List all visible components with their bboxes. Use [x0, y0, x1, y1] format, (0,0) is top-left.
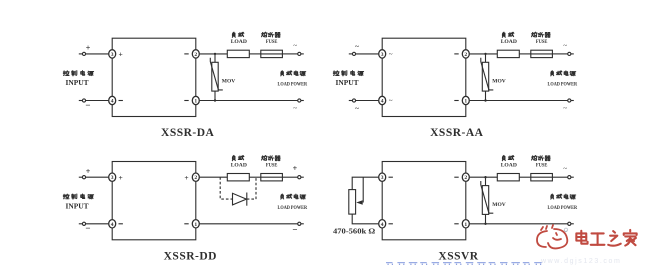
- svg-text:4: 4: [111, 99, 114, 105]
- svg-text:~: ~: [293, 42, 297, 50]
- input lead wire (top): [356, 53, 379, 55]
- cut-off blue caption fragments at bottom edge: [386, 262, 542, 265]
- watermark logo icon (sketched circles): [537, 225, 568, 248]
- junction dot MOV top: [484, 176, 486, 178]
- svg-text:LOAD: LOAD: [501, 163, 517, 169]
- svg-text:1: 1: [194, 222, 197, 228]
- fuse F1: [531, 174, 553, 181]
- svg-text:MOV: MOV: [492, 79, 505, 85]
- label 控制电源: [63, 71, 69, 76]
- input lead wire (top): [86, 176, 109, 178]
- input terminal circle (top): [349, 52, 356, 55]
- svg-text:XSSR-DD: XSSR-DD: [164, 251, 217, 263]
- input lead wire (top): [86, 53, 109, 55]
- terminal pin 4: [379, 96, 386, 104]
- label 负载: [502, 32, 505, 37]
- terminal pin 4: [379, 220, 386, 228]
- svg-text:XSSR-AA: XSSR-AA: [430, 127, 484, 139]
- SSR module box XSSR-AA: [382, 38, 466, 116]
- svg-text:MOV: MOV: [492, 202, 505, 208]
- pin polarity mark minus: [184, 100, 188, 102]
- svg-text:~: ~: [389, 50, 393, 58]
- svg-text:2: 2: [194, 52, 197, 58]
- svg-text:+: +: [86, 167, 91, 176]
- label 熔断器: [532, 155, 538, 160]
- svg-text:−: −: [292, 225, 297, 235]
- svg-text:+: +: [86, 44, 91, 53]
- terminal pin 2: [462, 173, 469, 181]
- trademark ring: [564, 228, 567, 231]
- fuse F1: [531, 50, 553, 57]
- svg-text:3: 3: [111, 52, 114, 58]
- label 负载: [232, 155, 235, 160]
- SSR module box XSSR-VR: [382, 162, 466, 240]
- wire terminal2 to load: [200, 53, 228, 55]
- terminal pin 2: [192, 173, 199, 181]
- terminal pin 1: [192, 96, 199, 104]
- terminal pin 3: [379, 173, 386, 181]
- freewheel diode D1: [233, 193, 247, 206]
- svg-text:LOAD POWER: LOAD POWER: [548, 205, 578, 211]
- wire MOV to bottom return: [485, 214, 487, 223]
- pin polarity mark minus: [454, 176, 458, 178]
- input terminal circle (bottom): [79, 99, 86, 102]
- junction dot MOV bottom: [214, 99, 216, 101]
- input terminal circle (bottom): [79, 222, 86, 225]
- right terminal circle (bottom): [298, 99, 304, 102]
- wire fuse to right terminal: [282, 53, 297, 55]
- svg-text:LOAD: LOAD: [231, 163, 247, 169]
- bottom return wire terminal1 to right terminal: [470, 223, 568, 225]
- svg-text:470-560k Ω: 470-560k Ω: [333, 226, 375, 235]
- label 熔断器: [262, 155, 268, 160]
- svg-text:+: +: [184, 173, 188, 182]
- input lead wire (bottom): [86, 100, 109, 102]
- label 负载电源: [281, 194, 284, 199]
- wire load to fuse: [519, 176, 531, 178]
- varistor MOV: [481, 58, 494, 91]
- wire junction to MOV: [214, 54, 216, 62]
- svg-text:2: 2: [464, 52, 467, 58]
- svg-text:3: 3: [381, 175, 384, 181]
- svg-text:4: 4: [111, 222, 114, 228]
- junction dot MOV bottom: [484, 223, 486, 225]
- fuse F1: [261, 50, 283, 57]
- wire junction to MOV: [485, 177, 487, 185]
- terminal pin 3: [109, 173, 116, 181]
- svg-text:INPUT: INPUT: [66, 78, 89, 87]
- input terminal circle (top): [79, 52, 86, 55]
- pin polarity mark minus: [389, 223, 393, 225]
- load resistor box: [227, 174, 249, 181]
- wire terminal2 to load: [470, 53, 498, 55]
- varistor MOV: [210, 58, 223, 91]
- terminal pin 3: [379, 50, 386, 58]
- svg-text:FUSE: FUSE: [536, 39, 548, 45]
- potentiometer wiper arrow: [356, 177, 363, 205]
- svg-text:~: ~: [389, 97, 393, 105]
- wire junction to MOV: [485, 54, 487, 62]
- svg-text:+: +: [119, 50, 123, 59]
- pin polarity mark minus: [454, 100, 458, 102]
- right terminal circle (bottom): [568, 222, 574, 225]
- load resistor box: [227, 50, 249, 57]
- input lead wire (bottom): [86, 223, 109, 225]
- svg-text:1: 1: [464, 99, 467, 105]
- terminal pin 1: [462, 220, 469, 228]
- junction dot MOV bottom: [484, 99, 486, 101]
- svg-text:−: −: [85, 100, 90, 110]
- svg-text:1: 1: [194, 99, 197, 105]
- junction dot MOV top: [214, 53, 216, 55]
- svg-text:~: ~: [355, 104, 360, 113]
- bottom return wire terminal1 to right terminal: [200, 223, 298, 225]
- wire fuse to right terminal: [552, 176, 567, 178]
- label 熔断器: [262, 32, 268, 37]
- svg-text:LOAD: LOAD: [501, 39, 517, 45]
- terminal pin 2: [192, 50, 199, 58]
- svg-text:~: ~: [563, 105, 567, 113]
- wire load to fuse: [519, 53, 531, 55]
- terminal pin 2: [462, 50, 469, 58]
- wire diode to junction (right leg, dashed): [247, 177, 256, 199]
- wire terminal3 to potentiometer top: [352, 177, 378, 189]
- svg-text:+: +: [293, 164, 298, 173]
- right terminal circle (top): [568, 176, 574, 179]
- svg-text:MOV: MOV: [222, 79, 235, 85]
- terminal pin 4: [109, 220, 116, 228]
- fuse F1: [261, 174, 283, 181]
- svg-text:1: 1: [464, 222, 467, 228]
- svg-text:FUSE: FUSE: [266, 39, 278, 45]
- wire load to fuse: [249, 53, 260, 55]
- label 负载: [502, 155, 505, 160]
- label 负载电源: [551, 71, 554, 76]
- junction dot MOV top: [484, 53, 486, 55]
- right terminal circle (top): [298, 52, 304, 55]
- label 熔断器: [532, 32, 538, 37]
- input lead wire (bottom): [356, 100, 379, 102]
- svg-text:XSSR-DA: XSSR-DA: [161, 127, 215, 139]
- svg-text:~: ~: [563, 165, 567, 173]
- pin polarity mark minus: [119, 100, 123, 102]
- input terminal circle (bottom): [349, 99, 356, 102]
- pin polarity mark minus: [184, 223, 188, 225]
- load resistor box: [497, 174, 519, 181]
- right terminal circle (bottom): [568, 99, 574, 102]
- right terminal circle (bottom): [298, 222, 304, 225]
- terminal pin 3: [109, 50, 116, 58]
- label 负载电源: [551, 194, 554, 199]
- right terminal circle (top): [298, 176, 304, 179]
- pin polarity mark minus: [389, 176, 393, 178]
- terminal pin 1: [462, 96, 469, 104]
- bottom return wire terminal1 to right terminal: [200, 100, 298, 102]
- wire terminal2 to load: [470, 176, 498, 178]
- svg-text:LOAD POWER: LOAD POWER: [278, 205, 308, 211]
- svg-text:2: 2: [464, 175, 467, 181]
- svg-text:+: +: [119, 173, 123, 182]
- right terminal circle (top): [568, 52, 574, 55]
- SSR module box XSSR-DD: [112, 162, 196, 240]
- svg-text:XSSVR: XSSVR: [438, 251, 478, 263]
- svg-text:LOAD POWER: LOAD POWER: [278, 82, 308, 88]
- label 负载: [232, 32, 235, 37]
- svg-text:LOAD POWER: LOAD POWER: [548, 82, 578, 88]
- label 负载电源: [281, 71, 284, 76]
- pin polarity mark minus: [119, 223, 123, 225]
- svg-text:3: 3: [111, 175, 114, 181]
- potentiometer RP 470-560k: [349, 190, 356, 215]
- wire potentiometer bottom to terminal4: [352, 214, 378, 224]
- svg-text:~: ~: [563, 42, 567, 50]
- watermark text 电工之家: [576, 230, 636, 246]
- svg-text:~: ~: [355, 42, 360, 51]
- svg-text:3: 3: [381, 52, 384, 58]
- svg-text:~: ~: [293, 105, 297, 113]
- label 控制电源: [63, 194, 69, 199]
- svg-text:4: 4: [381, 99, 384, 105]
- wire fuse to right terminal: [552, 53, 567, 55]
- input terminal circle (top): [79, 176, 86, 179]
- SSR module box XSSR-DA: [112, 38, 196, 116]
- svg-text:2: 2: [194, 175, 197, 181]
- svg-text:FUSE: FUSE: [266, 162, 278, 168]
- pin polarity mark minus: [184, 53, 188, 55]
- terminal pin 1: [192, 220, 199, 228]
- svg-text:www.dgjs123.com: www.dgjs123.com: [540, 258, 621, 265]
- pin polarity mark minus: [454, 223, 458, 225]
- bottom return wire terminal1 to right terminal: [470, 100, 568, 102]
- svg-text:FUSE: FUSE: [536, 162, 548, 168]
- load resistor box: [497, 50, 519, 57]
- wire load to fuse: [249, 176, 260, 178]
- svg-text:4: 4: [381, 222, 384, 228]
- wire fuse to right terminal: [282, 176, 297, 178]
- terminal pin 4: [109, 96, 116, 104]
- wire terminal2 to load: [200, 176, 228, 178]
- svg-text:−: −: [85, 223, 90, 233]
- wire junction to diode (left leg, dashed): [220, 177, 232, 199]
- varistor MOV: [481, 181, 494, 214]
- label 控制电源: [333, 71, 339, 76]
- wire MOV to bottom return: [214, 91, 216, 100]
- svg-text:INPUT: INPUT: [66, 202, 89, 211]
- svg-text:INPUT: INPUT: [336, 78, 359, 87]
- pin polarity mark minus: [454, 53, 458, 55]
- svg-text:LOAD: LOAD: [231, 39, 247, 45]
- wire MOV to bottom return: [485, 91, 487, 100]
